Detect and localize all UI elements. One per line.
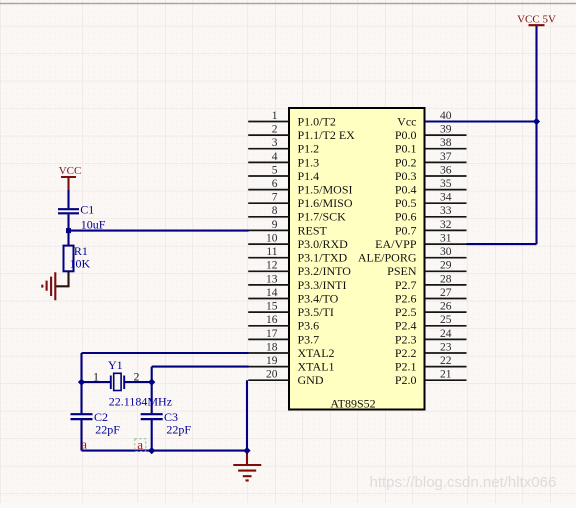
svg-text:10uF: 10uF bbox=[81, 217, 106, 231]
svg-text:VCC: VCC bbox=[59, 165, 82, 177]
svg-text:3: 3 bbox=[272, 137, 278, 149]
svg-text:16: 16 bbox=[266, 314, 278, 326]
svg-text:P2.6: P2.6 bbox=[395, 291, 417, 305]
svg-text:P0.7: P0.7 bbox=[395, 223, 417, 237]
svg-text:GND: GND bbox=[298, 373, 324, 387]
svg-text:33: 33 bbox=[440, 205, 452, 217]
svg-text:22pF: 22pF bbox=[95, 422, 120, 436]
svg-text:5: 5 bbox=[272, 164, 278, 176]
svg-text:17: 17 bbox=[266, 328, 278, 340]
svg-text:9: 9 bbox=[272, 219, 278, 231]
svg-text:38: 38 bbox=[440, 137, 452, 149]
svg-text:a: a bbox=[137, 437, 143, 452]
svg-text:36: 36 bbox=[440, 164, 452, 176]
svg-text:7: 7 bbox=[272, 192, 278, 204]
svg-text:a: a bbox=[81, 437, 87, 452]
svg-text:22.1184MHz: 22.1184MHz bbox=[109, 395, 172, 409]
svg-text:P2.2: P2.2 bbox=[395, 346, 417, 360]
svg-text:22: 22 bbox=[440, 355, 452, 367]
svg-text:4: 4 bbox=[272, 151, 278, 163]
svg-text:31: 31 bbox=[440, 232, 452, 244]
svg-text:18: 18 bbox=[266, 341, 278, 353]
svg-text:P2.7: P2.7 bbox=[395, 278, 417, 292]
svg-text:8: 8 bbox=[272, 205, 278, 217]
svg-text:32: 32 bbox=[440, 219, 452, 231]
svg-text:39: 39 bbox=[440, 124, 452, 136]
svg-text:P1.4: P1.4 bbox=[298, 169, 320, 183]
svg-text:Vcc: Vcc bbox=[397, 114, 416, 128]
svg-text:15: 15 bbox=[266, 301, 278, 313]
svg-text:AT89S52: AT89S52 bbox=[330, 396, 375, 410]
svg-text:REST: REST bbox=[298, 223, 328, 237]
svg-text:25: 25 bbox=[440, 314, 452, 326]
svg-text:PSEN: PSEN bbox=[387, 264, 417, 278]
svg-text:P2.0: P2.0 bbox=[395, 373, 417, 387]
svg-text:34: 34 bbox=[440, 192, 452, 204]
svg-text:21: 21 bbox=[440, 369, 452, 381]
svg-text:P0.3: P0.3 bbox=[395, 169, 417, 183]
svg-text:P1.2: P1.2 bbox=[298, 142, 320, 156]
svg-text:P1.5/MOSI: P1.5/MOSI bbox=[298, 182, 353, 196]
svg-text:ALE/PORG: ALE/PORG bbox=[358, 251, 417, 265]
svg-text:P0.2: P0.2 bbox=[395, 155, 417, 169]
svg-text:10: 10 bbox=[266, 232, 278, 244]
svg-text:P2.3: P2.3 bbox=[395, 332, 417, 346]
svg-text:Y1: Y1 bbox=[108, 358, 123, 372]
svg-text:10K: 10K bbox=[70, 257, 91, 271]
svg-text:C1: C1 bbox=[80, 202, 94, 216]
svg-text:30: 30 bbox=[440, 246, 452, 258]
svg-text:P0.6: P0.6 bbox=[395, 210, 417, 224]
svg-text:P0.5: P0.5 bbox=[395, 196, 417, 210]
svg-text:P2.4: P2.4 bbox=[395, 319, 417, 333]
svg-text:P0.4: P0.4 bbox=[395, 182, 417, 196]
svg-text:11: 11 bbox=[266, 246, 277, 258]
svg-text:P0.0: P0.0 bbox=[395, 128, 417, 142]
svg-text:P3.0/RXD: P3.0/RXD bbox=[298, 237, 349, 251]
svg-text:27: 27 bbox=[440, 287, 452, 299]
svg-text:XTAL2: XTAL2 bbox=[298, 346, 335, 360]
svg-text:P3.7: P3.7 bbox=[298, 332, 320, 346]
svg-text:6: 6 bbox=[272, 178, 278, 190]
svg-text:P3.5/TI: P3.5/TI bbox=[298, 305, 334, 319]
svg-text:29: 29 bbox=[440, 260, 452, 272]
svg-text:19: 19 bbox=[266, 355, 278, 367]
svg-text:XTAL1: XTAL1 bbox=[298, 360, 335, 374]
svg-text:P3.3/INTI: P3.3/INTI bbox=[298, 278, 347, 292]
svg-text:40: 40 bbox=[440, 110, 452, 122]
svg-text:https://blog.csdn.net/hltx066: https://blog.csdn.net/hltx066 bbox=[370, 474, 557, 491]
svg-text:35: 35 bbox=[440, 178, 452, 190]
svg-text:2: 2 bbox=[134, 371, 140, 383]
svg-text:P1.3: P1.3 bbox=[298, 155, 320, 169]
svg-text:37: 37 bbox=[440, 151, 452, 163]
svg-text:P1.7/SCK: P1.7/SCK bbox=[298, 210, 347, 224]
svg-text:P1.6/MISO: P1.6/MISO bbox=[298, 196, 353, 210]
svg-text:P1.0/T2: P1.0/T2 bbox=[298, 114, 336, 128]
svg-text:14: 14 bbox=[266, 287, 278, 299]
svg-text:1: 1 bbox=[272, 110, 278, 122]
svg-text:23: 23 bbox=[440, 341, 452, 353]
svg-text:24: 24 bbox=[440, 328, 452, 340]
svg-text:VCC 5V: VCC 5V bbox=[517, 13, 556, 25]
svg-text:P0.1: P0.1 bbox=[395, 142, 417, 156]
svg-text:22pF: 22pF bbox=[166, 422, 191, 436]
svg-text:P3.4/TO: P3.4/TO bbox=[298, 291, 339, 305]
svg-text:1: 1 bbox=[93, 371, 99, 383]
svg-text:2: 2 bbox=[272, 124, 278, 136]
svg-text:12: 12 bbox=[266, 260, 278, 272]
svg-text:20: 20 bbox=[266, 369, 278, 381]
svg-text:P3.6: P3.6 bbox=[298, 319, 320, 333]
svg-text:P2.5: P2.5 bbox=[395, 305, 417, 319]
svg-text:P3.2/INTO: P3.2/INTO bbox=[298, 264, 352, 278]
svg-text:P3.1/TXD: P3.1/TXD bbox=[298, 251, 348, 265]
svg-text:13: 13 bbox=[266, 273, 278, 285]
svg-text:EA/VPP: EA/VPP bbox=[375, 237, 417, 251]
svg-text:P1.1/T2 EX: P1.1/T2 EX bbox=[298, 128, 356, 142]
svg-text:P2.1: P2.1 bbox=[395, 360, 417, 374]
svg-text:26: 26 bbox=[440, 301, 452, 313]
svg-text:28: 28 bbox=[440, 273, 452, 285]
